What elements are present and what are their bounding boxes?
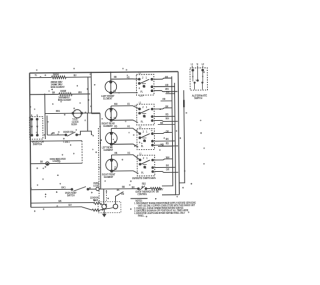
wire left border feed xyxy=(30,73,31,207)
svg-text:L1: L1 xyxy=(139,103,142,105)
svg-text:WH: WH xyxy=(114,104,118,106)
surface element E2 xyxy=(105,108,117,120)
wire element E1 bottom lead xyxy=(111,92,138,94)
wire switch SW1 outputs xyxy=(154,78,172,79)
selector contact 1 xyxy=(31,119,33,135)
svg-text:BU: BU xyxy=(69,204,72,207)
svg-text:2: 2 xyxy=(143,157,145,160)
svg-text:2: 2 xyxy=(142,106,144,109)
svg-text:L1: L1 xyxy=(139,154,142,156)
svg-text:RD: RD xyxy=(114,126,117,128)
wire element E4 stem xyxy=(110,155,112,171)
svg-text:L1: L1 xyxy=(191,64,194,66)
wire element E1 stem xyxy=(110,72,112,93)
wire switch SW2 outputs xyxy=(154,108,172,109)
terminal N xyxy=(113,204,118,209)
terminal block TB1 enclosure xyxy=(98,202,121,213)
switch door latch xyxy=(65,134,67,136)
svg-text:WH: WH xyxy=(78,91,82,94)
svg-text:L1: L1 xyxy=(139,127,142,129)
ground G1 xyxy=(103,209,105,214)
infinite switch SW3 enclosure xyxy=(137,129,155,150)
switch SW4 extra contacts xyxy=(143,163,147,165)
switch SW1 contacts xyxy=(138,78,140,80)
svg-text:OR: OR xyxy=(166,168,169,171)
svg-text:BAKE ELEMENT: BAKE ELEMENT xyxy=(51,86,66,90)
svg-text:RD: RD xyxy=(122,186,125,189)
wire console return stub xyxy=(131,197,148,199)
svg-text:2: 2 xyxy=(142,76,144,79)
bus stub b xyxy=(158,124,175,126)
bus stub a xyxy=(161,100,172,102)
alt switch contact right xyxy=(202,70,204,81)
wire neutral drop xyxy=(103,189,105,204)
svg-text:60HZ: 60HZ xyxy=(93,199,99,202)
svg-text:PL: PL xyxy=(141,146,144,148)
wire element E4 top lead xyxy=(111,155,140,161)
bus wire 1 xyxy=(161,76,173,186)
clock motor M1 xyxy=(73,110,81,118)
switch SW4 contacts xyxy=(139,159,141,161)
svg-text:ELEMENT: ELEMENT xyxy=(104,150,114,152)
wire vertical feed A xyxy=(90,72,92,114)
svg-text:BK: BK xyxy=(160,123,163,125)
svg-text:RD2: RD2 xyxy=(142,184,147,186)
alt switch arm xyxy=(196,79,198,82)
connector crimp 2 xyxy=(92,209,99,211)
switch SW2 extra contacts xyxy=(142,112,146,114)
svg-text:RD: RD xyxy=(166,142,169,145)
resistor oven sensor xyxy=(150,187,161,190)
svg-text:7-150-1: 7-150-1 xyxy=(63,142,70,144)
wire element E2 bottom lead xyxy=(111,120,138,123)
svg-text:1: 1 xyxy=(146,157,148,160)
svg-text:BK1: BK1 xyxy=(61,186,66,189)
svg-text:BK: BK xyxy=(117,190,120,192)
svg-text:SWITCH: SWITCH xyxy=(194,97,202,100)
svg-text:WH: WH xyxy=(166,117,170,120)
svg-text:BROIL ELEMENT: BROIL ELEMENT xyxy=(58,100,72,103)
wire clock row RD1 xyxy=(45,112,100,115)
wire BU supply xyxy=(31,207,92,211)
svg-text:YL: YL xyxy=(35,74,38,77)
svg-text:BU: BU xyxy=(52,132,55,135)
bus wire 4 alternate feed xyxy=(178,90,184,183)
wire broil element row xyxy=(30,93,59,95)
wire oven control row xyxy=(31,188,72,190)
wire terminal branch xyxy=(115,192,123,204)
svg-text:RD: RD xyxy=(114,77,117,79)
alt switch center pole xyxy=(197,68,199,81)
lamp oven indicator DS1 xyxy=(46,162,49,165)
wire element E2 stem xyxy=(110,106,112,120)
wire L1 top feed (slanted scan) xyxy=(30,72,178,73)
svg-text:CONTROL: CONTROL xyxy=(137,194,147,196)
infinite switch SW4 enclosure xyxy=(137,155,155,176)
svg-text:L1: L1 xyxy=(139,73,142,75)
svg-text:BK: BK xyxy=(166,164,169,167)
svg-text:PL: PL xyxy=(141,122,144,124)
svg-text:L2 P: L2 P xyxy=(140,95,145,97)
svg-text:RD: RD xyxy=(163,99,166,101)
switch SW1 extra contacts xyxy=(142,83,146,85)
resistor bake element xyxy=(52,76,67,79)
surface element E1 xyxy=(105,81,117,93)
connector crimp 1 xyxy=(94,202,102,204)
svg-text:BK: BK xyxy=(40,162,43,164)
lamp oven light DS2 xyxy=(96,187,99,190)
wire element E2 top lead xyxy=(111,106,140,110)
bus wire 3 link xyxy=(166,93,175,95)
svg-text:BK: BK xyxy=(166,138,169,141)
selector contact 2 xyxy=(36,119,38,135)
wire selector riser xyxy=(44,94,46,139)
wire BU row xyxy=(47,134,66,136)
svg-text:WH: WH xyxy=(160,144,164,146)
svg-text:PL: PL xyxy=(140,92,143,94)
wire switch SW4 outputs xyxy=(155,159,173,160)
svg-text:RD1: RD1 xyxy=(56,110,61,113)
wire junction bake-broil xyxy=(87,77,89,113)
wire element E4 bottom lead xyxy=(112,171,139,174)
wire element E1 top lead xyxy=(111,78,140,81)
switch SW3 contacts xyxy=(139,133,141,135)
svg-text:ELEMENT: ELEMENT xyxy=(104,177,114,179)
wire BU row jog xyxy=(77,131,93,135)
svg-text:RD: RD xyxy=(121,193,124,195)
bus stub c xyxy=(158,145,172,147)
switch oven temp xyxy=(71,189,73,191)
svg-text:SWITCH: SWITCH xyxy=(67,195,75,197)
svg-text:WH: WH xyxy=(166,92,170,94)
wire right border drop xyxy=(178,72,179,195)
svg-text:1: 1 xyxy=(146,131,148,134)
wire jog feed A xyxy=(91,114,100,190)
wire element E3 bottom lead xyxy=(111,144,138,147)
svg-text:PANEL.: PANEL. xyxy=(138,214,145,218)
svg-text:RD: RD xyxy=(165,113,168,116)
scan noise xyxy=(30,67,206,218)
bus wire 4 heavy section xyxy=(183,100,185,107)
wire bake element row xyxy=(30,76,52,78)
oven box outline xyxy=(30,140,81,142)
svg-text:N1504: N1504 xyxy=(71,123,77,126)
alt switch contact left xyxy=(192,70,194,81)
svg-text:L2: L2 xyxy=(202,64,205,66)
svg-text:INFINITE SWITCHES: INFINITE SWITCHES xyxy=(132,176,156,180)
svg-text:OR: OR xyxy=(166,130,169,133)
svg-text:2: 2 xyxy=(143,131,145,134)
console boundary dashed xyxy=(97,128,100,202)
svg-text:N: N xyxy=(197,64,199,66)
infinite switch SW1 enclosure xyxy=(136,74,154,95)
terminal L1 xyxy=(102,204,107,209)
svg-text:BK: BK xyxy=(59,200,62,203)
svg-text:1: 1 xyxy=(146,106,148,109)
svg-text:LIGHT: LIGHT xyxy=(93,185,99,187)
svg-text:PL: PL xyxy=(141,173,144,175)
wire selector riser 2 xyxy=(46,116,48,135)
wire selector stubs xyxy=(31,115,33,117)
svg-text:BK: BK xyxy=(132,186,135,189)
svg-text:3600W: 3600W xyxy=(60,91,67,93)
wire indicator row xyxy=(30,163,45,165)
console boundary dashed 2 xyxy=(105,190,107,202)
svg-text:WH: WH xyxy=(166,156,170,159)
surface element E3 xyxy=(105,132,117,144)
wire switch SW3 outputs xyxy=(154,132,172,133)
switch SW3 extra contacts xyxy=(142,137,146,139)
svg-text:BK: BK xyxy=(52,91,55,94)
wire TOD drop xyxy=(86,113,88,131)
wire element E3 stem xyxy=(110,128,112,144)
svg-text:BU: BU xyxy=(74,74,77,77)
svg-text:WH: WH xyxy=(165,88,169,91)
wire BK supply xyxy=(31,202,94,205)
svg-text:SWITCH: SWITCH xyxy=(33,143,42,146)
surface element E4 xyxy=(106,159,118,171)
wire bottom right run xyxy=(162,194,179,196)
svg-text:DOOR SW: DOOR SW xyxy=(63,130,74,133)
svg-text:RD: RD xyxy=(58,162,61,164)
svg-text:ELEMENT: ELEMENT xyxy=(103,126,113,128)
wire alt switch stubs bottom xyxy=(194,83,196,90)
selector switch S1 enclosure xyxy=(30,117,43,140)
svg-text:BK: BK xyxy=(165,105,168,108)
svg-text:2600W: 2600W xyxy=(53,74,60,76)
svg-text:BK: BK xyxy=(165,76,168,79)
alternate switch S2 enclosure xyxy=(190,68,208,90)
switch SW2 contacts xyxy=(139,108,141,110)
svg-text:OR: OR xyxy=(165,83,168,86)
svg-text:1: 1 xyxy=(146,76,148,79)
resistor broil element xyxy=(59,93,72,96)
thermostat switch xyxy=(138,188,140,190)
infinite switch SW2 enclosure xyxy=(137,104,155,125)
bus wire 2 xyxy=(161,83,176,195)
wire element E3 top lead xyxy=(111,128,140,134)
svg-text:BK: BK xyxy=(156,190,159,193)
svg-text:BK: BK xyxy=(115,153,118,155)
svg-text:ELEMENT: ELEMENT xyxy=(103,98,113,100)
wire alt switch stubs top xyxy=(191,66,193,68)
